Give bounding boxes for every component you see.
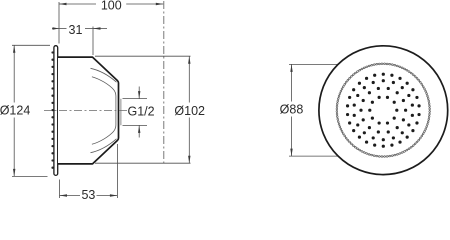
dim 31 extension line (92, 27, 94, 56)
inner profile curve top B (92, 77, 116, 96)
dim O88 line (291, 64, 293, 101)
scalloped spray-face ring (O88) (336, 63, 430, 157)
arrow G1/2 top (138, 91, 140, 99)
dim G1/2 arrow shafts (138, 87, 140, 99)
reference axis (dash-dot vertical) (163, 1, 165, 163)
G1/2 threaded stub (120, 99, 122, 126)
dim 53 line (60, 195, 81, 197)
arrow O102 top (188, 56, 190, 64)
dim 53 extension lines (59, 180, 61, 199)
inner profile curve top A (91, 68, 117, 82)
arrow O124 bottom (13, 169, 15, 177)
dim 100 line (59, 3, 96, 5)
arrow 53 right (110, 194, 118, 196)
gasket bumps on wall flange (51, 51, 53, 169)
dim O102 line (188, 56, 190, 102)
arrow 31 right (outside) (93, 27, 101, 29)
dim 31 line (52, 28, 67, 30)
svg-text:100: 100 (101, 0, 122, 13)
wall flange plate (54, 46, 58, 176)
dim G1/2 extension lines (123, 98, 148, 100)
centerline (44, 110, 128, 112)
arrowheads (13, 3, 293, 197)
svg-text:Ø88: Ø88 (280, 103, 304, 117)
arrow G1/2 bottom (138, 125, 140, 132)
arrow 100 left (59, 3, 67, 5)
arrow O124 top (13, 45, 15, 53)
arrow 31 left (outside) (53, 27, 60, 29)
arrow 53 left (60, 194, 68, 196)
arrow O88 bottom (290, 149, 292, 157)
dim O124 extension lines (12, 44, 50, 46)
dim O102 extension lines (95, 55, 191, 57)
body outline (58, 57, 119, 164)
arrow O102 bottom (188, 156, 190, 164)
svg-text:Ø124: Ø124 (0, 104, 30, 118)
inner face line (115, 96, 117, 125)
dim O124 line (13, 45, 15, 102)
inner profile curve bottom B (92, 125, 116, 144)
dim O88 extension lines (289, 63, 360, 65)
nozzle dots (346, 73, 421, 148)
svg-text:Ø102: Ø102 (174, 104, 205, 118)
arrow 100 right (156, 3, 164, 5)
dim 100 extension line (58, 2, 60, 44)
svg-text:G1/2: G1/2 (128, 104, 155, 118)
svg-text:31: 31 (69, 23, 83, 37)
svg-text:53: 53 (81, 188, 95, 200)
arrow O88 top (290, 64, 292, 72)
face plate outer circle (O124) (319, 46, 448, 175)
inner profile curve bottom A (91, 139, 117, 153)
